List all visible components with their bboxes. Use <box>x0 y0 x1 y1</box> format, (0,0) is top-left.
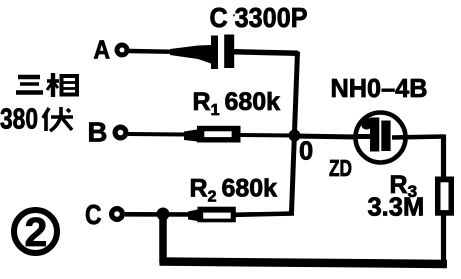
node B terminal ring <box>115 127 126 138</box>
junction dot on C wire <box>157 208 170 221</box>
svg-text:0: 0 <box>299 138 313 166</box>
neon lamp electrode 2 <box>381 121 390 152</box>
node C terminal ring <box>112 209 123 220</box>
svg-text:R2680k: R2680k <box>190 175 278 206</box>
svg-text:NH0–4B: NH0–4B <box>331 75 428 103</box>
svg-text:C 3300P: C 3300P <box>210 2 308 33</box>
svg-text:3.3M: 3.3M <box>368 194 425 222</box>
wire capacitor to top-right corner <box>234 52 298 53</box>
wire right vertical down to bottom <box>441 135 446 264</box>
resistor R1 body <box>197 126 241 143</box>
neon lamp left electrode stub <box>356 134 370 139</box>
resistor R3 body <box>435 177 454 216</box>
wire vertical from capacitor down to R2 output <box>292 52 298 213</box>
wire C to R2 <box>125 212 198 217</box>
svg-text:380: 380 <box>0 104 38 136</box>
wire neon lamp to right corner <box>392 137 444 138</box>
label 三相 (three-phase) drawn as strokes <box>16 73 77 97</box>
wire B to node 0 <box>128 134 294 136</box>
wire left vertical down from junction <box>159 214 167 263</box>
svg-text:A: A <box>94 37 111 65</box>
wire bottom rail <box>160 262 448 265</box>
wire wedge at capacitor left lead <box>170 45 211 64</box>
capacitor C1 plates <box>211 36 218 70</box>
wire R2 to centre vertical <box>235 214 294 215</box>
neon lamp electrode hook <box>362 118 372 130</box>
svg-text:2: 2 <box>25 209 48 255</box>
neon lamp ZD envelope <box>356 113 406 163</box>
svg-text:B: B <box>88 117 108 148</box>
node 0 junction dot <box>289 130 301 142</box>
neon lamp electrode 1 <box>370 118 379 152</box>
wire node 0 to neon lamp <box>294 136 356 137</box>
svg-text:ZD: ZD <box>329 155 352 181</box>
node A terminal ring <box>117 45 127 55</box>
svg-text:R1680k: R1680k <box>193 88 281 119</box>
wire A to capacitor <box>129 49 175 54</box>
resistor R2 body <box>198 207 236 223</box>
svg-text:C: C <box>85 199 102 230</box>
figure number 2 circle <box>14 210 57 253</box>
